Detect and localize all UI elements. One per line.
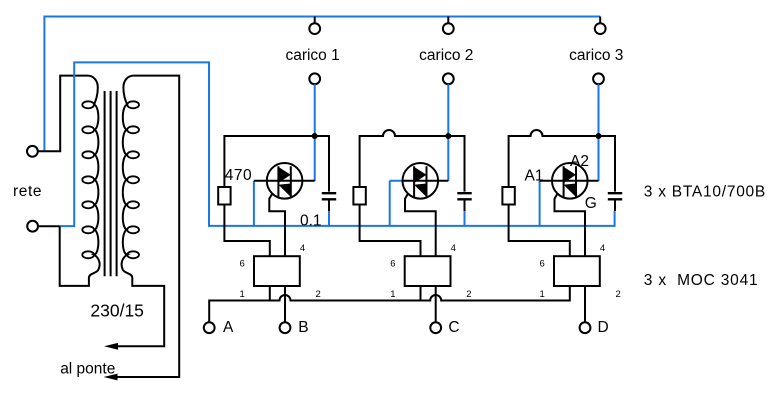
capacitor C3 0.1uF plates	[608, 193, 622, 199]
capacitor C1 0.1uF plates	[322, 193, 336, 199]
svg-text:4: 4	[600, 243, 605, 254]
opto-coupler U3 MOC3041	[554, 256, 600, 286]
transformer primary loop	[82, 251, 94, 258]
terminal: carico 1 upper pin	[309, 23, 320, 34]
transformer secondary loop	[127, 226, 139, 233]
arrow: al ponte lead	[104, 374, 118, 381]
terminal: B	[280, 322, 291, 333]
svg-text:470: 470	[225, 167, 252, 184]
wire: capacitor C1 bottom stub	[328, 201, 330, 212]
wire: triac 2 gate to MOC pin 4	[405, 194, 436, 257]
terminal: carico 2 upper pin	[443, 23, 454, 34]
terminal: rete lower pin	[27, 221, 38, 232]
wire: capacitor C3 bottom stub	[614, 201, 616, 212]
svg-text:1: 1	[390, 289, 395, 300]
wire: stub from blue rail to carico 3 upper terminal	[599, 17, 601, 24]
svg-text:6: 6	[540, 259, 545, 270]
wire: stub from blue rail to carico 1 upper terminal	[314, 17, 316, 24]
svg-text:6: 6	[390, 259, 395, 270]
wire: blue MT1 drop of triac 1 to bottom rail	[253, 181, 255, 226]
transformer secondary loop	[127, 151, 139, 158]
svg-text:D: D	[598, 319, 609, 336]
wire: U2 pin 2 down to terminal	[435, 286, 437, 322]
wire: blue link capacitor C2 to bottom rail	[464, 211, 466, 226]
transformer secondary loop	[127, 126, 139, 133]
wire: channel 3 top frame (snubber branch)	[509, 130, 615, 192]
wire: blue MT1 drop of triac 2 to bottom rail	[390, 181, 404, 226]
transformer core lines	[105, 91, 117, 276]
transformer primary loop	[82, 226, 94, 233]
wire: U1 pin 2 down to terminal	[284, 286, 286, 322]
transformer primary loop	[82, 201, 94, 208]
wire: U1 pin 1 to common rail	[269, 286, 271, 301]
wire: blue MT1 drop of triac 3 to bottom rail	[539, 181, 541, 226]
terminal: A	[204, 322, 215, 333]
svg-text:3 x BTA10/700B: 3 x BTA10/700B	[644, 183, 766, 200]
wire: common rail from terminal A to U3 pin 1 with hops	[209, 286, 570, 322]
svg-text:A1: A1	[525, 168, 544, 185]
svg-text:0.1: 0.1	[300, 212, 322, 229]
transformer T1 primary winding	[60, 76, 100, 286]
junction dot on channel 2 top wire	[445, 133, 451, 139]
wire: blue net from rete lower junction up and over to blue bottom rail	[60, 62, 615, 226]
triac Q1 BTA10/700B	[254, 163, 315, 199]
svg-text:1: 1	[540, 289, 545, 300]
transformer secondary loop	[127, 201, 139, 208]
svg-text:carico 3: carico 3	[569, 47, 623, 64]
arrow: secondary lower lead to bridge	[104, 343, 118, 350]
terminal: carico 3 upper pin	[595, 23, 606, 34]
wire: triac 3 gate to MOC pin 4	[555, 194, 586, 257]
triac Q3 BTA10/700B	[540, 163, 599, 199]
opto-coupler U1 MOC3041	[254, 256, 300, 286]
svg-text:2: 2	[466, 289, 471, 300]
wire: stub from blue rail to carico 2 upper terminal	[447, 17, 449, 24]
svg-text:6: 6	[240, 259, 245, 270]
terminal: carico 1 lower pin	[309, 73, 320, 84]
wire: rete upper pin to transformer primary top	[38, 76, 88, 152]
transformer primary loop	[82, 126, 94, 133]
svg-text:carico 2: carico 2	[419, 47, 473, 64]
wire: resistor R3 bottom lead to MOC pin 6	[509, 205, 570, 257]
junction dot on channel 3 top wire	[596, 133, 602, 139]
terminal: D	[580, 322, 591, 333]
wire: blue drop from carico 1 lower pin to triac MT2	[314, 84, 316, 181]
svg-text:3 x MOC 3041: 3 x MOC 3041	[644, 272, 759, 289]
wire: channel 1 top frame (snubber branch)	[224, 136, 329, 192]
resistor R3 470 ohm	[502, 187, 514, 205]
svg-text:2: 2	[616, 289, 621, 300]
svg-text:A2: A2	[570, 153, 589, 170]
svg-text:4: 4	[451, 243, 456, 254]
svg-text:2: 2	[316, 289, 321, 300]
resistor R1 470 ohm	[218, 187, 230, 205]
svg-text:230/15: 230/15	[90, 301, 144, 321]
transformer secondary loop	[127, 251, 139, 258]
svg-text:carico 1: carico 1	[285, 47, 339, 64]
capacitor C2 0.1uF plates	[457, 193, 471, 199]
wire: top blue rail from rete to carico terminals	[44, 17, 600, 152]
transformer primary loop	[82, 101, 94, 108]
wire: rete lower pin to primary bottom junction	[38, 225, 60, 227]
triac Q2 BTA10/700B	[403, 163, 449, 199]
terminal: rete upper pin	[27, 146, 38, 157]
resistor R2 470 ohm	[353, 187, 365, 205]
wire: U2 pin 1 to common rail	[420, 286, 422, 301]
transformer T1 secondary winding	[109, 76, 164, 347]
transformer secondary loop	[127, 101, 139, 108]
wire: capacitor C2 bottom stub	[464, 201, 466, 212]
wire: blue drop from carico 2 lower pin to triac MT2	[447, 84, 449, 181]
transformer primary loop	[82, 151, 94, 158]
wire: U3 pin 2 down to terminal	[584, 286, 586, 322]
svg-text:al ponte: al ponte	[60, 361, 115, 378]
wire: secondary top lead down to al ponte arrow	[109, 76, 179, 377]
wire: channel 2 top frame (snubber branch)	[360, 130, 465, 192]
wire: blue drop from carico 3 lower pin to triac MT2	[598, 84, 600, 181]
svg-text:G: G	[585, 195, 597, 212]
transformer secondary loop	[127, 176, 139, 183]
opto-coupler U2 MOC3041	[405, 256, 451, 286]
transformer primary loop	[82, 176, 94, 183]
svg-text:A: A	[223, 319, 234, 336]
terminal: C	[430, 322, 441, 333]
svg-text:rete: rete	[13, 183, 42, 200]
terminal: carico 2 lower pin	[443, 73, 454, 84]
svg-text:1: 1	[240, 289, 245, 300]
svg-text:4: 4	[300, 243, 305, 254]
junction dot on channel 1 top wire	[312, 133, 318, 139]
wire: blue link capacitor C1 to bottom rail	[328, 211, 330, 226]
svg-text:C: C	[448, 319, 459, 336]
wire: triac 1 gate to MOC pin 4	[269, 194, 285, 257]
wire: resistor R2 bottom lead to MOC pin 6	[360, 205, 421, 257]
wire: resistor R1 bottom lead to MOC pin 6	[224, 205, 269, 257]
svg-text:B: B	[298, 319, 308, 336]
terminal: carico 3 lower pin	[593, 73, 604, 84]
